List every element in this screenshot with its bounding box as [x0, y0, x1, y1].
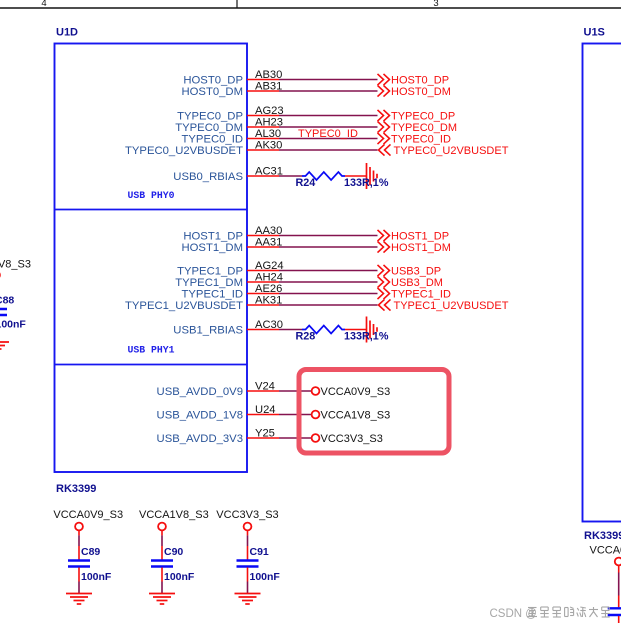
svg-text:TYPEC0_ID: TYPEC0_ID — [298, 128, 358, 140]
svg-text:TYPEC0_U2VBUSDET: TYPEC0_U2VBUSDET — [125, 145, 243, 157]
svg-text:AB30: AB30 — [255, 69, 282, 81]
svg-text:VCCA1V8_S3: VCCA1V8_S3 — [321, 410, 391, 422]
svg-text:TYPEC0_ID: TYPEC0_ID — [181, 134, 243, 146]
svg-text:TYPEC0_DP: TYPEC0_DP — [391, 111, 455, 123]
svg-text:TYPEC0_DP: TYPEC0_DP — [177, 111, 243, 123]
svg-text:AH23: AH23 — [255, 117, 283, 129]
svg-text:U24: U24 — [255, 404, 276, 416]
svg-text:HOST0_DM: HOST0_DM — [181, 86, 243, 98]
svg-text:TYPEC1_ID: TYPEC1_ID — [181, 289, 243, 301]
svg-text:TYPEC0_DM: TYPEC0_DM — [175, 122, 243, 134]
svg-text:100nF: 100nF — [250, 571, 281, 583]
svg-text:U1D: U1D — [56, 27, 78, 39]
svg-text:USB_AVDD_3V3: USB_AVDD_3V3 — [157, 433, 243, 445]
svg-text:AA30: AA30 — [255, 225, 282, 237]
svg-text:AH24: AH24 — [255, 272, 283, 284]
svg-text:HOST0_DM: HOST0_DM — [391, 86, 451, 98]
svg-text:AB31: AB31 — [255, 81, 282, 93]
svg-text:AE26: AE26 — [255, 283, 282, 295]
svg-text:R24: R24 — [296, 177, 316, 189]
svg-text:AK31: AK31 — [255, 295, 282, 307]
svg-text:TYPEC1_DP: TYPEC1_DP — [177, 266, 243, 278]
svg-text:USB1_RBIAS: USB1_RBIAS — [173, 325, 243, 337]
svg-text:TYPEC1_DM: TYPEC1_DM — [175, 277, 243, 289]
svg-text:USB3_DP: USB3_DP — [391, 266, 441, 278]
svg-text:AC31: AC31 — [255, 166, 283, 178]
svg-text:AG24: AG24 — [255, 260, 284, 272]
svg-text:U1S: U1S — [584, 27, 605, 39]
svg-text:RK3399: RK3399 — [56, 483, 96, 495]
svg-text:133R,1%: 133R,1% — [344, 177, 389, 189]
svg-text:TYPEC0_U2VBUSDET: TYPEC0_U2VBUSDET — [394, 145, 509, 157]
svg-text:HOST1_DP: HOST1_DP — [391, 231, 449, 243]
svg-text:VCCA1V8_S3: VCCA1V8_S3 — [139, 509, 209, 521]
svg-text:AK30: AK30 — [255, 140, 282, 152]
svg-text:HOST1_DM: HOST1_DM — [181, 242, 243, 254]
svg-text:VCC3V3_S3: VCC3V3_S3 — [216, 509, 278, 521]
svg-text:VCC3V3_S3: VCC3V3_S3 — [321, 433, 383, 445]
svg-text:R28: R28 — [296, 330, 316, 342]
svg-text:USB3_DM: USB3_DM — [391, 277, 443, 289]
svg-text:AG23: AG23 — [255, 105, 284, 117]
svg-text:HOST1_DP: HOST1_DP — [183, 231, 243, 243]
svg-text:C91: C91 — [250, 546, 269, 558]
svg-text:C88: C88 — [0, 295, 14, 307]
svg-text:HOST0_DP: HOST0_DP — [183, 75, 243, 87]
svg-text:100nF: 100nF — [81, 571, 112, 583]
svg-text:VCCA1V8_S3: VCCA1V8_S3 — [0, 259, 31, 271]
svg-text:VCCA0V9_S3: VCCA0V9_S3 — [53, 509, 123, 521]
svg-text:HOST0_DP: HOST0_DP — [391, 75, 449, 87]
svg-text:V24: V24 — [255, 381, 275, 393]
svg-text:AL30: AL30 — [255, 128, 281, 140]
svg-text:RK3399: RK3399 — [584, 530, 621, 542]
svg-text:TYPEC1_ID: TYPEC1_ID — [391, 289, 451, 301]
svg-text:USB PHY1: USB PHY1 — [128, 345, 175, 356]
svg-text:AA31: AA31 — [255, 237, 282, 249]
svg-text:TYPEC0_DM: TYPEC0_DM — [391, 122, 457, 134]
svg-text:3: 3 — [433, 0, 438, 9]
svg-text:VCCA0V9_S3: VCCA0V9_S3 — [590, 545, 621, 557]
svg-text:TYPEC1_U2VBUSDET: TYPEC1_U2VBUSDET — [125, 300, 243, 312]
svg-text:TYPEC1_U2VBUSDET: TYPEC1_U2VBUSDET — [394, 300, 509, 312]
svg-text:USB PHY0: USB PHY0 — [128, 190, 175, 201]
svg-text:4: 4 — [41, 0, 46, 9]
svg-text:USB_AVDD_1V8: USB_AVDD_1V8 — [157, 410, 243, 422]
svg-text:HOST1_DM: HOST1_DM — [391, 242, 451, 254]
svg-text:Y25: Y25 — [255, 428, 275, 440]
svg-text:AC30: AC30 — [255, 319, 283, 331]
svg-text:VCCA0V9_S3: VCCA0V9_S3 — [321, 386, 391, 398]
svg-text:TYPEC0_ID: TYPEC0_ID — [391, 134, 451, 146]
svg-text:100nF: 100nF — [0, 319, 26, 331]
svg-text:C89: C89 — [81, 546, 100, 558]
svg-text:USB0_RBIAS: USB0_RBIAS — [173, 171, 243, 183]
svg-text:100nF: 100nF — [164, 571, 195, 583]
svg-text:C90: C90 — [164, 546, 183, 558]
svg-text:USB_AVDD_0V9: USB_AVDD_0V9 — [157, 386, 243, 398]
svg-text:133R,1%: 133R,1% — [344, 330, 389, 342]
